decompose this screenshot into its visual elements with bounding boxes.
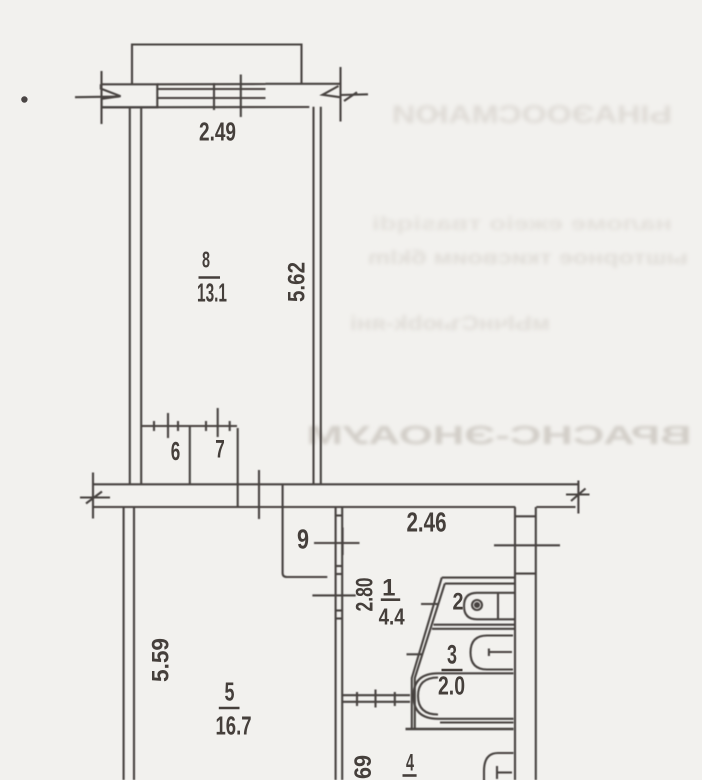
svg-text:2: 2 (453, 589, 464, 616)
svg-text:наломе ежеio тваsiqdi: наломе ежеio тваsiqdi (372, 214, 672, 235)
svg-text:5.62: 5.62 (284, 262, 311, 302)
svg-text:1.69: 1.69 (350, 755, 377, 780)
svg-text:5: 5 (225, 677, 235, 707)
svg-text:16.7: 16.7 (216, 711, 252, 741)
svg-text:мЫчнСъюbk-яні: мЫчнСъюbk-яні (350, 313, 550, 335)
svg-text:7: 7 (215, 436, 225, 464)
svg-text:13.1: 13.1 (197, 278, 227, 308)
svg-text:ышторное ткисвоим бklm: ышторное ткисвоим бklm (368, 248, 688, 269)
svg-text:2.46: 2.46 (407, 507, 447, 538)
svg-text:2.49: 2.49 (199, 117, 236, 147)
svg-text:1: 1 (382, 575, 395, 602)
svg-text:9: 9 (297, 524, 309, 555)
svg-text:6: 6 (171, 436, 181, 466)
svg-text:2.80: 2.80 (352, 578, 379, 612)
svg-text:2.0: 2.0 (438, 671, 465, 701)
svg-text:4.4: 4.4 (379, 604, 405, 630)
svg-text:4: 4 (406, 750, 414, 777)
svg-text:ЫНАЭООСМАЮИ: ЫНАЭООСМАЮИ (392, 101, 672, 129)
svg-text:3: 3 (447, 640, 457, 670)
svg-text:ВРАСНС-ЭНОАУМ: ВРАСНС-ЭНОАУМ (307, 420, 692, 450)
svg-text:8: 8 (202, 247, 210, 273)
svg-text:5.59: 5.59 (148, 638, 175, 682)
